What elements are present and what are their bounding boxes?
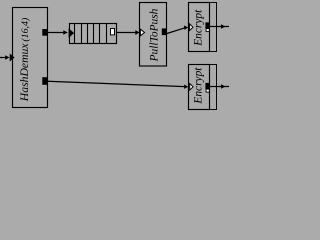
- svg-text:PullToPush: PullToPush: [149, 8, 161, 62]
- svg-text:Encrypt: Encrypt: [193, 67, 205, 105]
- svg-text:Encrypt: Encrypt: [193, 9, 205, 47]
- svg-text:HashDemux(16,4): HashDemux(16,4): [18, 18, 31, 102]
